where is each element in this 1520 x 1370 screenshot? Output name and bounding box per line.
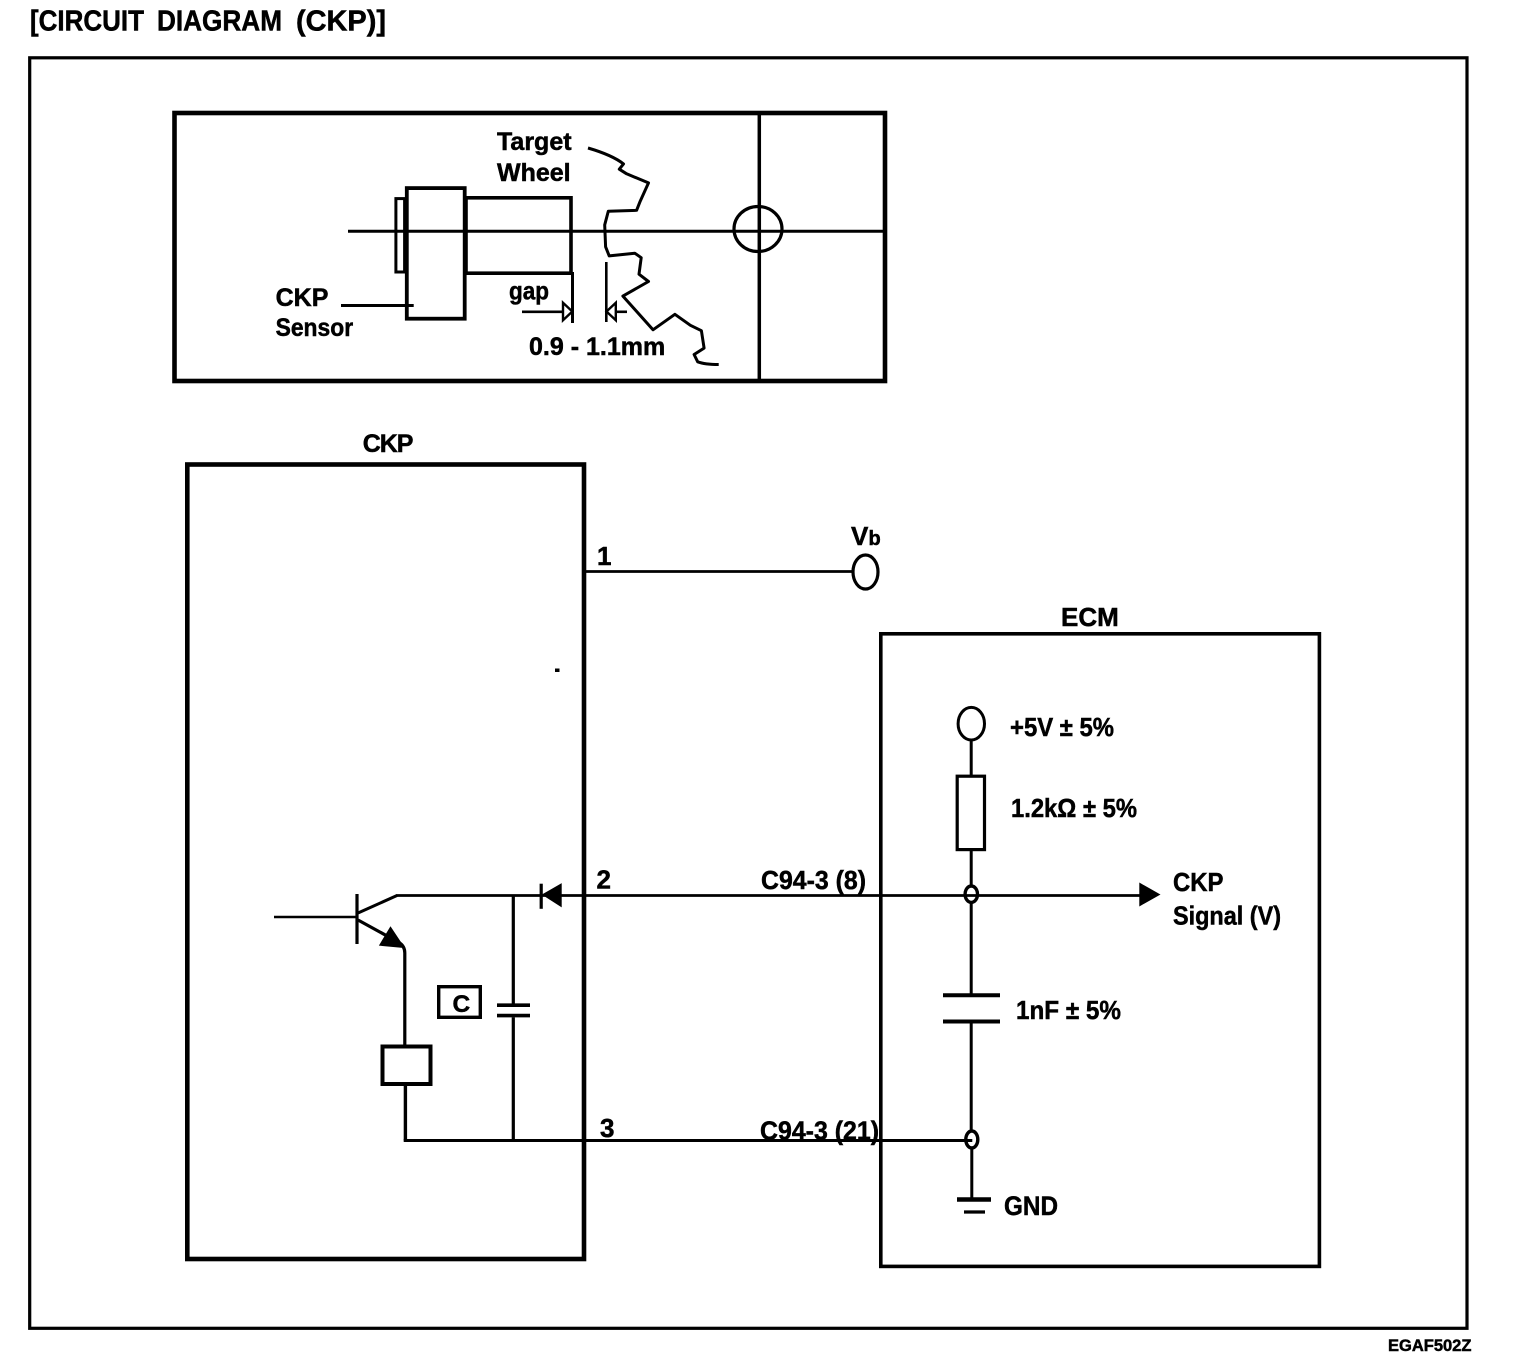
CKP connector box: [187, 465, 584, 1260]
CKP sensor rear tab: [396, 199, 405, 272]
svg-text:CKP: CKP: [1173, 867, 1224, 897]
wire +5V to resistor: [970, 740, 973, 776]
svg-text:0.9 - 1.1mm: 0.9 - 1.1mm: [529, 333, 665, 361]
wire 3: [404, 1139, 973, 1142]
arrowhead CKP Signal: [1140, 883, 1160, 905]
wire capacitor to node 2: [970, 1024, 973, 1133]
svg-text:ECM: ECM: [1061, 602, 1119, 632]
gap dimension arrow left: [522, 310, 563, 313]
wheel hub circle: [734, 207, 782, 252]
CKP sensor body: [407, 188, 465, 319]
svg-text:V: V: [851, 521, 869, 551]
wire resistor to node: [970, 850, 973, 887]
diode D1 triangle: [543, 884, 561, 907]
svg-text:C: C: [453, 991, 471, 1018]
svg-text:[CIRCUITDIAGRAM(CKP)]: [CIRCUITDIAGRAM(CKP)]: [30, 6, 386, 38]
leader line CKP Sensor: [341, 304, 414, 307]
shaft centerline: [348, 230, 884, 233]
svg-text:1nF ± 5%: 1nF ± 5%: [1016, 995, 1121, 1025]
svg-text:Wheel: Wheel: [497, 159, 571, 187]
terminal +5V: [958, 707, 984, 740]
node junction 1: [965, 886, 977, 902]
svg-text:C94-3 (8): C94-3 (8): [761, 865, 866, 895]
svg-text:+5V ± 5%: +5V ± 5%: [1010, 712, 1114, 742]
ground: [957, 1197, 991, 1202]
transistor Q1 base wire: [274, 916, 356, 919]
svg-text:Sensor: Sensor: [276, 314, 354, 342]
diode D1 cathode bar: [540, 884, 543, 909]
svg-text:CKP: CKP: [363, 430, 413, 458]
C box: [439, 987, 481, 1018]
svg-text:2: 2: [597, 865, 611, 895]
transistor Q1 collector: [358, 896, 397, 914]
capacitor C2 plates: [943, 993, 1000, 997]
wire node to capacitor: [970, 902, 973, 994]
resistor R1: [957, 776, 984, 849]
transistor Q1 base bar: [355, 894, 358, 944]
inset box: sensor and target wheel drawing: [175, 113, 886, 381]
svg-text:1.2kΩ ± 5%: 1.2kΩ ± 5%: [1011, 793, 1137, 823]
gap dimension arrow right: [607, 303, 616, 320]
svg-text:b: b: [869, 528, 881, 550]
target wheel gear teeth outline: [588, 148, 719, 365]
svg-text:1: 1: [597, 541, 611, 571]
CKP sensor nose: [466, 198, 571, 273]
svg-text:C94-3 (21): C94-3 (21): [760, 1116, 879, 1146]
node junction 2: [966, 1131, 978, 1148]
load box on emitter: [383, 1047, 431, 1085]
gap dimension line left: [571, 272, 574, 323]
capacitor C1 plates: [497, 1003, 530, 1007]
gap dimension line right: [605, 262, 608, 322]
wire node 2 to ground: [970, 1148, 973, 1199]
wheel axis vertical line: [758, 113, 762, 381]
svg-text:GND: GND: [1004, 1191, 1058, 1221]
capacitor C1 top wire: [512, 896, 515, 1004]
ECM box: [881, 634, 1320, 1267]
wire load box to wire 3: [404, 1084, 407, 1141]
wire 1: [584, 570, 853, 573]
svg-text:CKP: CKP: [276, 284, 329, 312]
wire 2: [396, 894, 1141, 897]
capacitor C1 bottom wire: [512, 1017, 515, 1140]
svg-text:3: 3: [600, 1113, 614, 1143]
transistor Q1 emitter with arrow: [358, 920, 405, 1047]
terminal Vb: [853, 555, 878, 589]
svg-text:Target: Target: [497, 128, 572, 156]
svg-text:EGAF502Z: EGAF502Z: [1388, 1337, 1471, 1355]
svg-text:Signal (V): Signal (V): [1173, 901, 1281, 931]
svg-text:gap: gap: [509, 278, 549, 306]
